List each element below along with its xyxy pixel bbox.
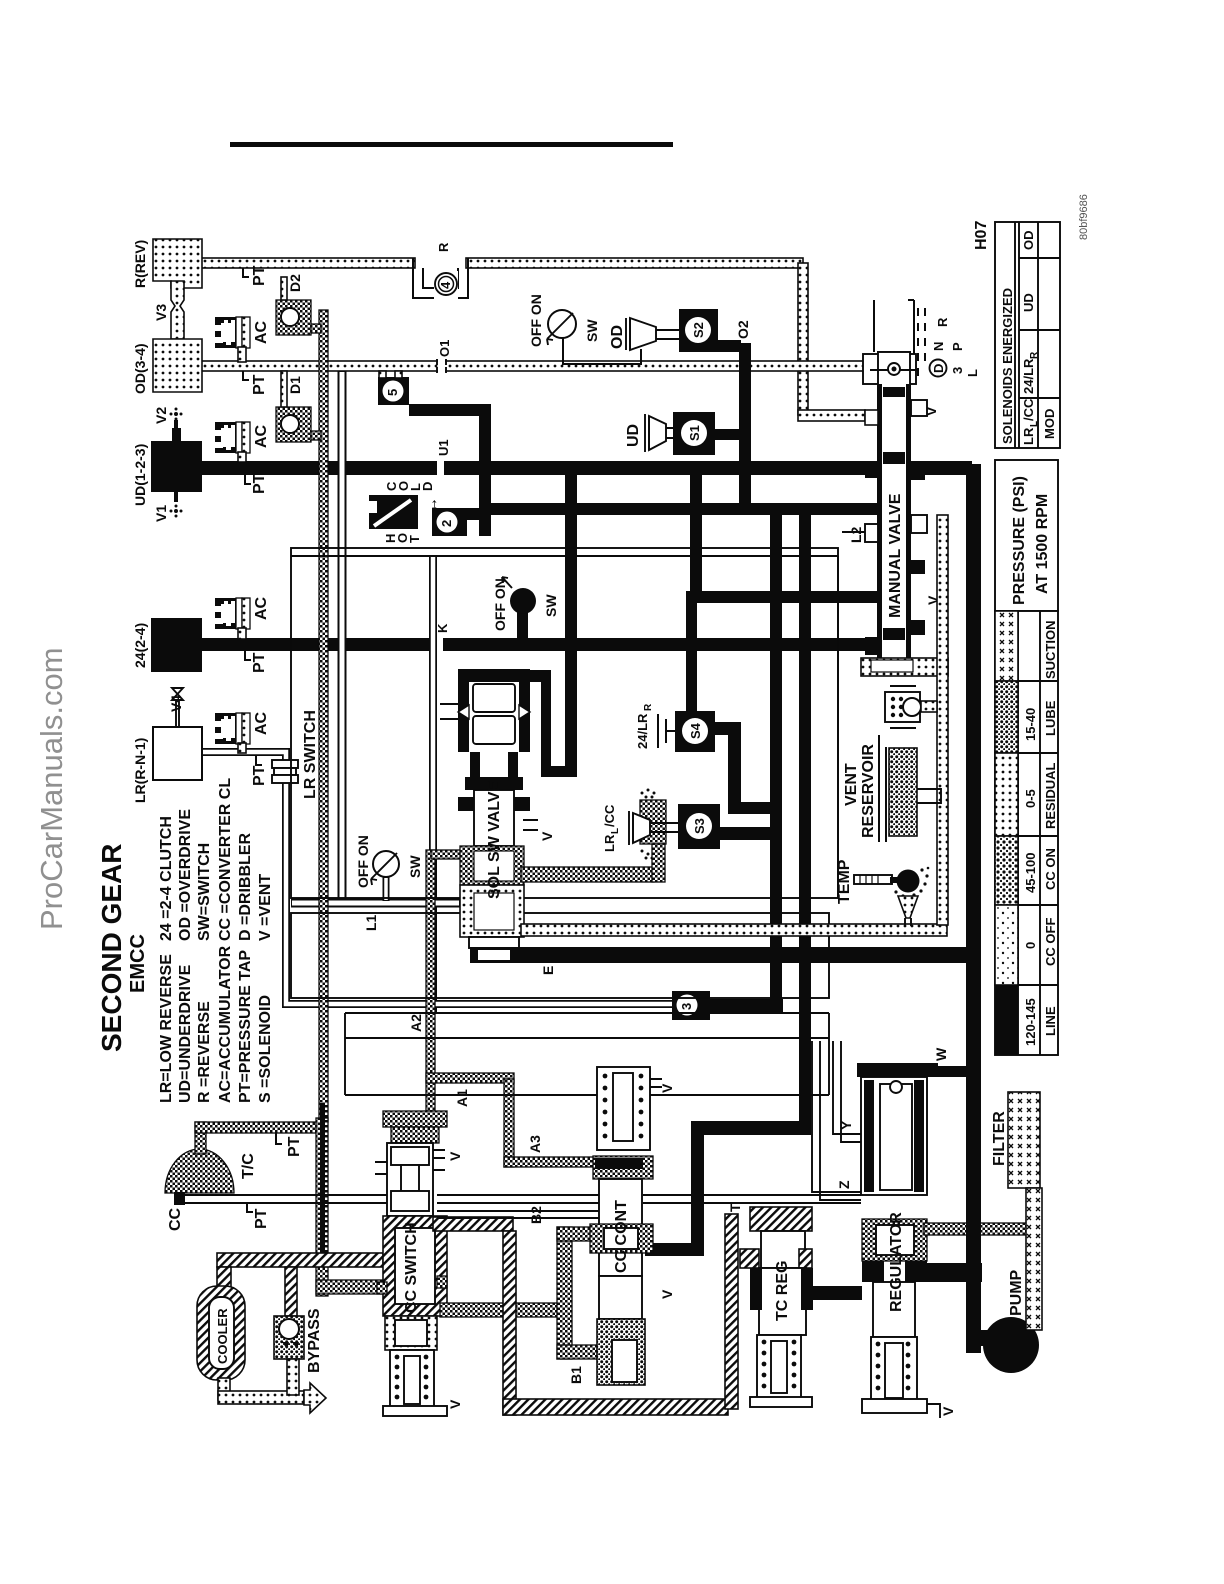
PT on cooler line bbox=[247, 1203, 253, 1212]
svg-text:A2: A2 bbox=[408, 1014, 424, 1032]
port V of SOL SW valve bbox=[523, 820, 538, 830]
wire 5-line manifold bbox=[409, 404, 491, 416]
svg-text:T: T bbox=[407, 535, 422, 543]
solenoid S1 bbox=[673, 412, 715, 455]
wire checkered chamber + run to LR/CC bbox=[460, 846, 524, 885]
svg-text:CC =CONVERTER CL: CC =CONVERTER CL bbox=[217, 778, 234, 941]
vent check valve bbox=[885, 692, 920, 722]
solenoid S4 bbox=[675, 711, 715, 752]
cooler bbox=[197, 1286, 245, 1380]
svg-text:V: V bbox=[659, 1289, 675, 1299]
svg-text:A1: A1 bbox=[454, 1089, 470, 1107]
svg-text:PT: PT bbox=[251, 765, 268, 786]
PT tap on OD pipe bbox=[243, 371, 249, 380]
solenoid S2 bbox=[679, 309, 718, 352]
wire checker vertical (to/from D-line) bbox=[316, 1118, 328, 1296]
wire E black line bbox=[470, 947, 976, 963]
svg-text:LR=LOW REVERSE: LR=LOW REVERSE bbox=[158, 954, 175, 1103]
svg-text:UD: UD bbox=[1021, 293, 1036, 312]
bypass valve bbox=[285, 1267, 297, 1316]
svg-text:FILTER: FILTER bbox=[991, 1111, 1008, 1166]
svg-text:OD(3-4): OD(3-4) bbox=[132, 343, 148, 394]
wire hatch pipe T/C to CC switch bbox=[217, 1253, 383, 1267]
svg-text:V: V bbox=[923, 406, 939, 416]
svg-text:T: T bbox=[727, 1203, 743, 1212]
svg-text:0-5: 0-5 bbox=[1023, 789, 1038, 808]
svg-text:R: R bbox=[436, 242, 451, 252]
wire black stub from checker to CC switch bbox=[318, 1253, 350, 1264]
op REGULATOR valve bbox=[857, 1063, 938, 1077]
svg-text:PT=PRESSURE TAP: PT=PRESSURE TAP bbox=[237, 950, 254, 1103]
svg-text:VENT: VENT bbox=[843, 763, 860, 806]
svg-text:PRESSURE (PSI): PRESSURE (PSI) bbox=[1011, 476, 1028, 605]
svg-text:UD=UNDERDRIVE: UD=UNDERDRIVE bbox=[177, 964, 194, 1103]
svg-text:S3: S3 bbox=[692, 818, 707, 834]
svg-text:0: 0 bbox=[1023, 942, 1038, 949]
wire white pipe left (OD to L1 area) bbox=[338, 371, 347, 901]
valve V3 waist bbox=[171, 281, 184, 339]
svg-text:L2: L2 bbox=[848, 526, 864, 543]
wire L2 thin line bbox=[838, 532, 865, 898]
svg-text:24/LR: 24/LR bbox=[1021, 358, 1036, 394]
manual valve bottom stipple bbox=[861, 658, 948, 676]
svg-text:PT: PT bbox=[251, 652, 268, 673]
svg-text:5: 5 bbox=[385, 389, 400, 396]
wire S1-line to manual valve bbox=[690, 474, 702, 594]
svg-text:W: W bbox=[933, 1047, 949, 1061]
svg-text:V =VENT: V =VENT bbox=[257, 874, 274, 941]
svg-text:R: R bbox=[1029, 351, 1040, 359]
svg-text:PT: PT bbox=[251, 265, 268, 286]
svg-text:SW=SWITCH: SW=SWITCH bbox=[196, 843, 213, 941]
svg-text:AT 1500 RPM: AT 1500 RPM bbox=[1034, 494, 1051, 594]
svg-text:SUCTION: SUCTION bbox=[1043, 621, 1058, 680]
clutch OD(3-4) bbox=[153, 339, 202, 392]
wire loop around restrictor 4 bbox=[413, 258, 468, 298]
op CC CONT valve bbox=[597, 1067, 650, 1150]
svg-text:4: 4 bbox=[438, 281, 453, 289]
enclosure box C bbox=[345, 1013, 829, 1095]
wire K main line bbox=[202, 638, 870, 651]
solenoid LR/CC funnel with dribbler bbox=[640, 800, 666, 844]
wire pipe LR switch to 3-line bbox=[202, 752, 674, 1004]
svg-text:D2: D2 bbox=[287, 274, 303, 292]
svg-text:RESERVOIR: RESERVOIR bbox=[860, 744, 877, 838]
PT on T/C checker bbox=[276, 1133, 282, 1144]
svg-text:AC: AC bbox=[253, 711, 270, 735]
header rule bbox=[230, 142, 673, 147]
clutch LR(R-N-1) bbox=[153, 727, 202, 780]
op SOL SW VALVE body bbox=[458, 669, 530, 682]
PT tap on U1 bbox=[245, 475, 251, 484]
stippled lower chamber bbox=[460, 885, 524, 937]
svg-text:S2: S2 bbox=[691, 322, 706, 338]
svg-text:AC=ACCUMULATOR: AC=ACCUMULATOR bbox=[217, 945, 234, 1103]
svg-text:120-145: 120-145 bbox=[1023, 998, 1038, 1046]
svg-text:CC: CC bbox=[167, 1207, 184, 1231]
torque converter dome T/C bbox=[165, 1149, 234, 1193]
manual valve lever box bbox=[878, 352, 910, 385]
op MANUAL VALVE body bbox=[863, 354, 916, 384]
wire S1 to riser bbox=[715, 429, 741, 440]
PT tap on LR line bbox=[256, 756, 262, 765]
svg-text:15-40: 15-40 bbox=[1023, 708, 1038, 741]
svg-text:/CC: /CC bbox=[1021, 398, 1036, 421]
svg-text:R =REVERSE: R =REVERSE bbox=[196, 1001, 213, 1103]
svg-text:COOLER: COOLER bbox=[215, 1308, 230, 1364]
svg-text:D: D bbox=[931, 364, 946, 373]
svg-text:S4: S4 bbox=[688, 722, 703, 739]
svg-text:AC: AC bbox=[253, 596, 270, 620]
svg-text:TEMP: TEMP bbox=[836, 859, 853, 904]
table SOLENOIDS ENERGIZED bbox=[995, 222, 1060, 448]
svg-text:O2: O2 bbox=[735, 320, 751, 339]
svg-text:24 =2-4 CLUTCH: 24 =2-4 CLUTCH bbox=[158, 816, 175, 941]
wire S2 to O2 riser bbox=[718, 340, 741, 352]
table PRESSURE (PSI) AT 1500 RPM bbox=[995, 460, 1058, 1055]
svg-text:L1: L1 bbox=[363, 914, 379, 931]
svg-text:SOLENOIDS ENERGIZED: SOLENOIDS ENERGIZED bbox=[1000, 288, 1015, 444]
node O1 bbox=[438, 360, 445, 372]
enclosure box B bbox=[291, 913, 829, 998]
wire checkered vertical from D2/D1 bbox=[319, 310, 328, 1122]
restrictor 4 bbox=[434, 271, 458, 302]
wire R pipe vertical to manual valve bbox=[798, 263, 808, 415]
svg-text:LUBE: LUBE bbox=[1043, 700, 1058, 736]
wire white pipe x433 bbox=[429, 556, 437, 1013]
svg-text:UD: UD bbox=[625, 424, 642, 447]
accumulator D1 bbox=[276, 407, 311, 442]
wire regulator checker to filter pipe bbox=[924, 1223, 1034, 1235]
svg-text:D =DRIBBLER: D =DRIBBLER bbox=[237, 833, 254, 941]
switch SW on K line bbox=[517, 612, 528, 640]
wire checker from T/C top bbox=[195, 1122, 206, 1154]
wire riser to 3-bar below E bbox=[770, 960, 782, 1013]
svg-text:LINE: LINE bbox=[1043, 1006, 1058, 1036]
svg-text:PT: PT bbox=[251, 374, 268, 395]
wire Y pipe bbox=[833, 1041, 861, 1142]
wire R(REV) dotted pipe bbox=[200, 258, 415, 268]
svg-text:Y: Y bbox=[838, 1120, 854, 1130]
svg-text:CC CONT: CC CONT bbox=[613, 1200, 630, 1273]
svg-text:SW: SW bbox=[543, 594, 559, 617]
svg-text:CC ON: CC ON bbox=[1043, 848, 1058, 890]
wire L1 pipe bbox=[291, 899, 460, 908]
LR switch symbol bbox=[272, 760, 298, 783]
svg-text:T/C: T/C bbox=[240, 1153, 257, 1179]
svg-text:LR: LR bbox=[602, 834, 617, 852]
svg-text:N: N bbox=[931, 342, 946, 351]
svg-text:ProCarManuals.com: ProCarManuals.com bbox=[34, 647, 69, 930]
svg-text:PT: PT bbox=[251, 473, 268, 494]
op CC SWITCH valve bbox=[383, 1111, 447, 1127]
solenoid OD funnel bbox=[630, 318, 656, 350]
PT tap on K bbox=[245, 651, 251, 660]
manual valve ports right bbox=[911, 400, 927, 416]
svg-text:SECOND GEAR: SECOND GEAR bbox=[96, 844, 127, 1052]
clutch 24(2-4) bbox=[151, 618, 202, 672]
wire B2 thin pipe bbox=[437, 1211, 599, 1218]
svg-text:S =SOLENOID: S =SOLENOID bbox=[257, 995, 274, 1103]
restrictor 5 bbox=[378, 377, 409, 405]
svg-text:V: V bbox=[447, 1151, 463, 1161]
svg-text:24/LR: 24/LR bbox=[635, 713, 650, 749]
svg-text:E: E bbox=[540, 966, 556, 975]
svg-text:LR SWITCH: LR SWITCH bbox=[302, 710, 319, 799]
wire hatch down leg + bottom run bbox=[503, 1231, 516, 1415]
svg-text:SOL SW VALVE: SOL SW VALVE bbox=[486, 780, 503, 899]
wire U1 to SOL SW valve hook bbox=[565, 474, 577, 776]
wire cooler thin line bbox=[179, 1195, 861, 1203]
wire checkered A2 riser bbox=[426, 850, 435, 1111]
svg-text:R: R bbox=[643, 703, 654, 711]
svg-text:80bf9686: 80bf9686 bbox=[1078, 194, 1090, 240]
wire OD(3-4) dotted pipe bbox=[200, 361, 865, 371]
svg-text:3: 3 bbox=[950, 367, 965, 374]
svg-text:CC OFF: CC OFF bbox=[1043, 918, 1058, 966]
thermal valve COLD/HOT bbox=[369, 495, 418, 529]
node K bbox=[436, 638, 443, 651]
svg-text:D: D bbox=[420, 482, 435, 491]
solenoid S3 bbox=[678, 804, 720, 849]
node U1 bbox=[437, 461, 444, 475]
svg-text:R: R bbox=[935, 317, 950, 327]
svg-text:L: L bbox=[610, 828, 621, 834]
svg-text:RESIDUAL: RESIDUAL bbox=[1043, 762, 1058, 829]
accumulator D2 bbox=[276, 300, 311, 335]
wire lower manifold to CC CONT bbox=[691, 1121, 811, 1135]
wire long LINE vertical bbox=[966, 464, 981, 1353]
filter bbox=[1008, 1092, 1040, 1188]
wire vent dotted vertical bbox=[937, 515, 948, 925]
svg-text:H07: H07 bbox=[973, 221, 990, 250]
svg-text:V3: V3 bbox=[153, 304, 169, 321]
svg-text:U1: U1 bbox=[436, 439, 451, 456]
svg-text:LR: LR bbox=[1021, 427, 1036, 445]
svg-text:O1: O1 bbox=[437, 340, 452, 357]
accumulator AC (R/OD line) bbox=[214, 317, 250, 348]
switch SW on L1 bbox=[383, 877, 390, 901]
svg-text:B2: B2 bbox=[528, 1206, 544, 1224]
svg-text:OFF ON: OFF ON bbox=[528, 294, 544, 347]
svg-text:V: V bbox=[447, 1399, 463, 1409]
svg-text:AC: AC bbox=[253, 424, 270, 448]
wire cooler out stipple + arrow bbox=[218, 1378, 230, 1400]
restrictor 3 bbox=[672, 991, 710, 1020]
svg-text:OD: OD bbox=[1021, 231, 1036, 251]
svg-text:D1: D1 bbox=[287, 376, 303, 394]
svg-text:MANUAL VALVE: MANUAL VALVE bbox=[887, 493, 904, 618]
pump bbox=[983, 1317, 1039, 1373]
wire S4 feed bbox=[686, 601, 697, 713]
svg-text:EMCC: EMCC bbox=[127, 934, 149, 993]
svg-text:OFF ON: OFF ON bbox=[355, 835, 371, 888]
restrictor 2 bbox=[455, 508, 479, 520]
svg-text:PT: PT bbox=[286, 1136, 303, 1157]
svg-text:V: V bbox=[539, 831, 555, 841]
clutch R(REV) bbox=[153, 239, 202, 288]
svg-text:PUMP: PUMP bbox=[1008, 1269, 1025, 1316]
svg-text:L: L bbox=[965, 369, 980, 377]
svg-text:CC SWITCH: CC SWITCH bbox=[403, 1222, 420, 1313]
svg-text:24(2-4): 24(2-4) bbox=[132, 623, 148, 668]
wire riser x805 bbox=[799, 512, 811, 1127]
svg-text:MOD: MOD bbox=[1042, 409, 1057, 439]
svg-text:V1: V1 bbox=[153, 505, 169, 522]
svg-text:V: V bbox=[659, 1083, 675, 1093]
wire S3 to riser bbox=[720, 827, 776, 840]
clutch UD(1-2-3) bbox=[151, 441, 202, 492]
svg-text:SW: SW bbox=[584, 319, 600, 342]
svg-text:REGULATOR: REGULATOR bbox=[888, 1212, 905, 1312]
wire filter-pump xhatch pipe bbox=[1026, 1188, 1042, 1330]
svg-text:UD(1-2-3): UD(1-2-3) bbox=[132, 444, 148, 506]
svg-text:S1: S1 bbox=[687, 425, 702, 441]
svg-text:Z: Z bbox=[836, 1180, 852, 1189]
manual valve ports left bbox=[865, 410, 878, 425]
wire S4 to riser bbox=[715, 722, 738, 735]
svg-text:OD: OD bbox=[609, 325, 626, 349]
svg-text:OD =OVERDRIVE: OD =OVERDRIVE bbox=[177, 809, 194, 941]
PT tap on R pipe bbox=[243, 268, 249, 277]
svg-text:/CC: /CC bbox=[602, 804, 617, 827]
svg-text:OFF ON: OFF ON bbox=[492, 578, 508, 631]
svg-text:P: P bbox=[950, 342, 965, 351]
svg-text:SW: SW bbox=[407, 855, 423, 878]
svg-text:3: 3 bbox=[679, 1003, 694, 1010]
solenoid UD funnel bbox=[649, 416, 666, 450]
svg-text:PT: PT bbox=[253, 1208, 270, 1229]
svg-text:2: 2 bbox=[439, 520, 454, 527]
wire checker low run to CC switch bbox=[316, 1280, 383, 1294]
switch SW on OD line bbox=[548, 310, 576, 338]
shift gate PRNDL bbox=[874, 300, 914, 354]
svg-text:A3: A3 bbox=[527, 1135, 543, 1153]
wire checker B1/B2 riser bbox=[440, 1303, 559, 1317]
vent reservoir bbox=[879, 735, 886, 842]
svg-text:TC REG: TC REG bbox=[774, 1261, 791, 1321]
svg-text:BYPASS: BYPASS bbox=[306, 1308, 323, 1373]
spool lands bbox=[883, 387, 905, 397]
svg-text:V2: V2 bbox=[153, 407, 169, 424]
svg-text:AC: AC bbox=[253, 320, 270, 344]
wire E dotted pipe bbox=[521, 924, 947, 936]
wire riser x776 bbox=[770, 512, 782, 1007]
svg-text:45-100: 45-100 bbox=[1023, 853, 1038, 893]
wire U1 main line bbox=[202, 461, 972, 475]
enclosure box A bbox=[291, 548, 838, 898]
svg-text:B1: B1 bbox=[568, 1366, 584, 1384]
svg-text:V: V bbox=[940, 1406, 956, 1416]
svg-text:R(REV): R(REV) bbox=[132, 240, 148, 288]
svg-text:LR(R-N-1): LR(R-N-1) bbox=[132, 738, 148, 803]
svg-text:K: K bbox=[435, 623, 450, 633]
wire Z pipe bbox=[812, 1041, 861, 1200]
